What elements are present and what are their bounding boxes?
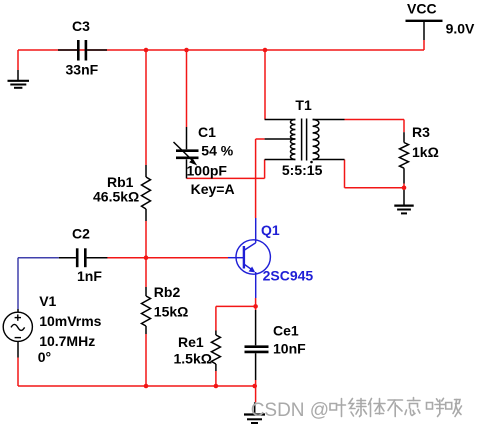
svg-text:VCC: VCC [407, 1, 437, 17]
svg-text:1nF: 1nF [77, 268, 102, 284]
svg-text:54 %: 54 % [201, 142, 233, 158]
svg-text:10.7MHz: 10.7MHz [39, 333, 95, 349]
svg-text:CSDN @: CSDN @ [251, 400, 329, 421]
svg-text:1kΩ: 1kΩ [412, 144, 439, 160]
svg-text:V1: V1 [39, 293, 56, 309]
svg-text:5:5:15: 5:5:15 [282, 162, 323, 178]
svg-text:0°: 0° [38, 349, 51, 365]
svg-text:Ce1: Ce1 [273, 322, 299, 338]
svg-text:T1: T1 [295, 97, 312, 113]
svg-text:2SC945: 2SC945 [263, 268, 314, 284]
svg-text:Re1: Re1 [178, 334, 204, 350]
svg-text:R3: R3 [412, 124, 430, 140]
svg-text:9.0V: 9.0V [446, 21, 475, 37]
svg-text:Rb2: Rb2 [154, 284, 181, 300]
svg-text:C3: C3 [72, 18, 90, 34]
svg-text:C2: C2 [72, 226, 90, 242]
svg-text:10mVrms: 10mVrms [39, 313, 101, 329]
svg-text:1.5kΩ: 1.5kΩ [174, 351, 212, 367]
svg-text:Key=A: Key=A [191, 181, 235, 197]
svg-text:46.5kΩ: 46.5kΩ [93, 188, 139, 204]
svg-text:10nF: 10nF [273, 340, 306, 356]
svg-text:Q1: Q1 [261, 222, 280, 238]
svg-text:33nF: 33nF [66, 62, 99, 78]
svg-text:100pF: 100pF [187, 162, 228, 178]
svg-text:15kΩ: 15kΩ [154, 304, 189, 320]
svg-text:C1: C1 [198, 124, 216, 140]
